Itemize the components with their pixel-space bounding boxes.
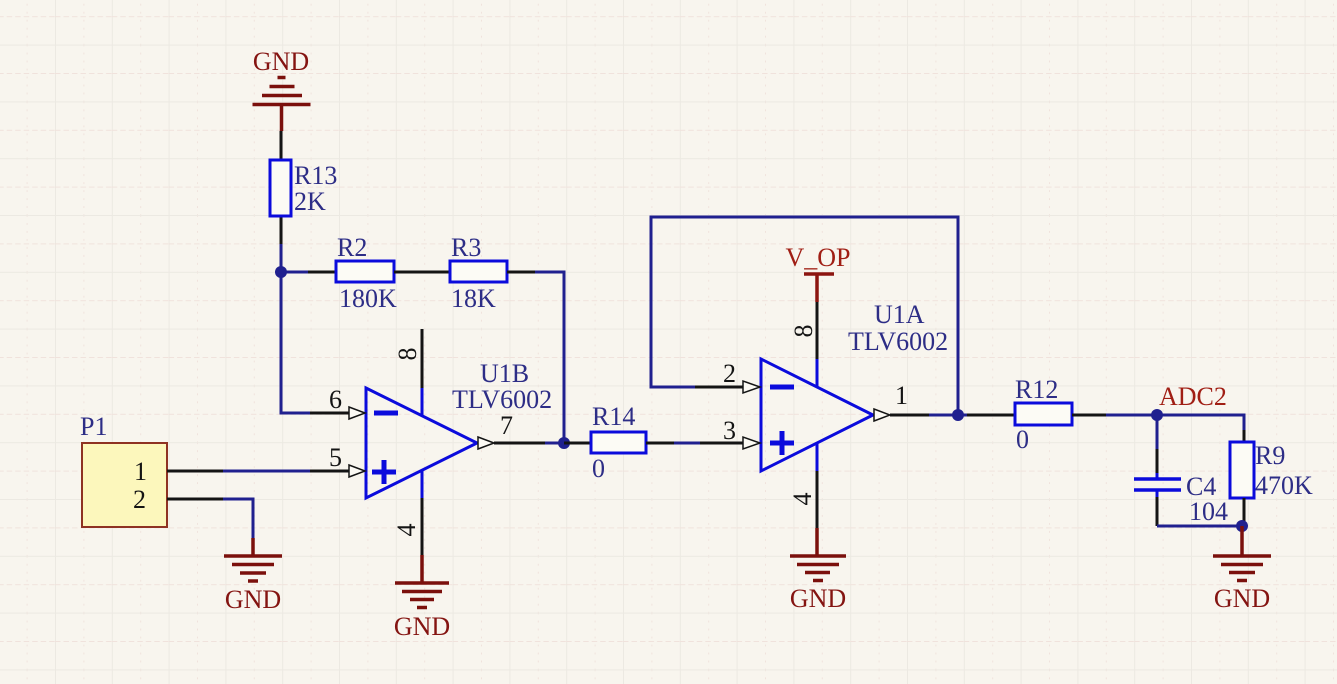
U1A pin3 (700, 442, 743, 445)
svg-text:R3: R3 (451, 233, 481, 262)
svg-text:5: 5 (329, 443, 342, 472)
svg-text:P1: P1 (80, 412, 107, 441)
U1B output pin7 (478, 437, 494, 449)
svg-text:2: 2 (133, 485, 146, 514)
node A junction (275, 266, 287, 278)
U1A minus (770, 385, 794, 390)
svg-text:8: 8 (789, 325, 818, 338)
svg-text:R2: R2 (337, 233, 367, 262)
junction U1B out (558, 437, 570, 449)
svg-text:U1B: U1B (480, 359, 529, 388)
svg-text:2K: 2K (294, 187, 326, 216)
U1B pin6 (310, 412, 350, 415)
svg-text:8: 8 (393, 348, 422, 361)
wire ADC2 to R9 (1157, 415, 1244, 430)
svg-text:2: 2 (723, 359, 736, 388)
wire to U1A out junction (929, 414, 958, 417)
U1A pin8 (816, 302, 819, 359)
svg-text:4: 4 (788, 493, 817, 506)
power port GND U1B (395, 555, 449, 608)
U1B minus (374, 411, 398, 416)
power port GND P1 (224, 538, 282, 581)
svg-text:V_OP: V_OP (785, 243, 850, 272)
junction U1A out (952, 409, 964, 421)
resistor R14 (564, 442, 591, 445)
power port GND top (253, 78, 311, 132)
svg-text:0: 0 (1016, 425, 1029, 454)
svg-text:R13: R13 (294, 161, 337, 190)
svg-text:GND: GND (394, 612, 450, 641)
op-amp U1B (366, 388, 477, 498)
junction bottom right (1236, 520, 1248, 532)
U1B pin4 (421, 470, 424, 498)
svg-text:GND: GND (790, 584, 846, 613)
wire node A down (281, 272, 310, 413)
op-amp U1A (761, 359, 873, 471)
wire to output junction (545, 442, 564, 445)
wire R13 to node A (280, 244, 283, 272)
wire C4 to junction (1157, 525, 1242, 528)
svg-text:TLV6002: TLV6002 (452, 385, 552, 414)
svg-text:18K: 18K (451, 284, 496, 313)
U1A output pin1 (874, 409, 890, 421)
U1B plus (372, 470, 396, 475)
capacitor C4 (1156, 415, 1159, 449)
svg-text:4: 4 (392, 524, 421, 537)
resistor R3 (450, 261, 507, 282)
svg-text:TLV6002: TLV6002 (848, 327, 948, 356)
svg-text:R14: R14 (592, 402, 635, 431)
svg-text:GND: GND (253, 47, 309, 76)
wire R12 to ADC2 (1106, 414, 1157, 417)
wire R2-R3 (394, 271, 450, 274)
svg-text:104: 104 (1189, 497, 1228, 526)
power port GND bottom right (1213, 526, 1271, 581)
connector P1 (82, 443, 167, 527)
resistor R2 (281, 271, 308, 274)
svg-text:GND: GND (225, 585, 281, 614)
P1 pin 1 (167, 470, 223, 473)
wire P1 to U1B pin5 (223, 470, 310, 473)
resistor R9 (1230, 442, 1254, 498)
svg-text:ADC2: ADC2 (1159, 382, 1227, 411)
svg-text:GND: GND (1214, 584, 1270, 613)
U1A pin2 (695, 386, 743, 389)
U1A pin4 (816, 443, 819, 471)
svg-text:U1A: U1A (874, 300, 925, 329)
U1B pin8 (421, 329, 424, 388)
svg-text:7: 7 (500, 411, 513, 440)
wire R14 to U1A pin3 (674, 442, 700, 445)
junction ADC2 (1151, 409, 1163, 421)
power port GND U1A (790, 528, 846, 581)
svg-text:470K: 470K (1255, 471, 1313, 500)
resistor R12 (958, 414, 967, 417)
power port V_OP (815, 274, 819, 302)
P1 pin 2 (167, 498, 223, 501)
resistor R13 (280, 131, 283, 160)
svg-text:1: 1 (134, 457, 147, 486)
U1A plus (770, 441, 794, 446)
svg-text:1: 1 (895, 381, 908, 410)
svg-text:R9: R9 (1255, 441, 1285, 470)
svg-text:180K: 180K (339, 284, 397, 313)
svg-text:6: 6 (329, 385, 342, 414)
U1B pin5 (310, 470, 350, 473)
wire P1 pin2 to GND (223, 499, 253, 538)
feedback loop wire (651, 217, 958, 415)
svg-text:0: 0 (592, 454, 605, 483)
wire R3 to U1B output node (535, 272, 564, 443)
svg-text:R12: R12 (1015, 375, 1058, 404)
svg-text:3: 3 (723, 416, 736, 445)
